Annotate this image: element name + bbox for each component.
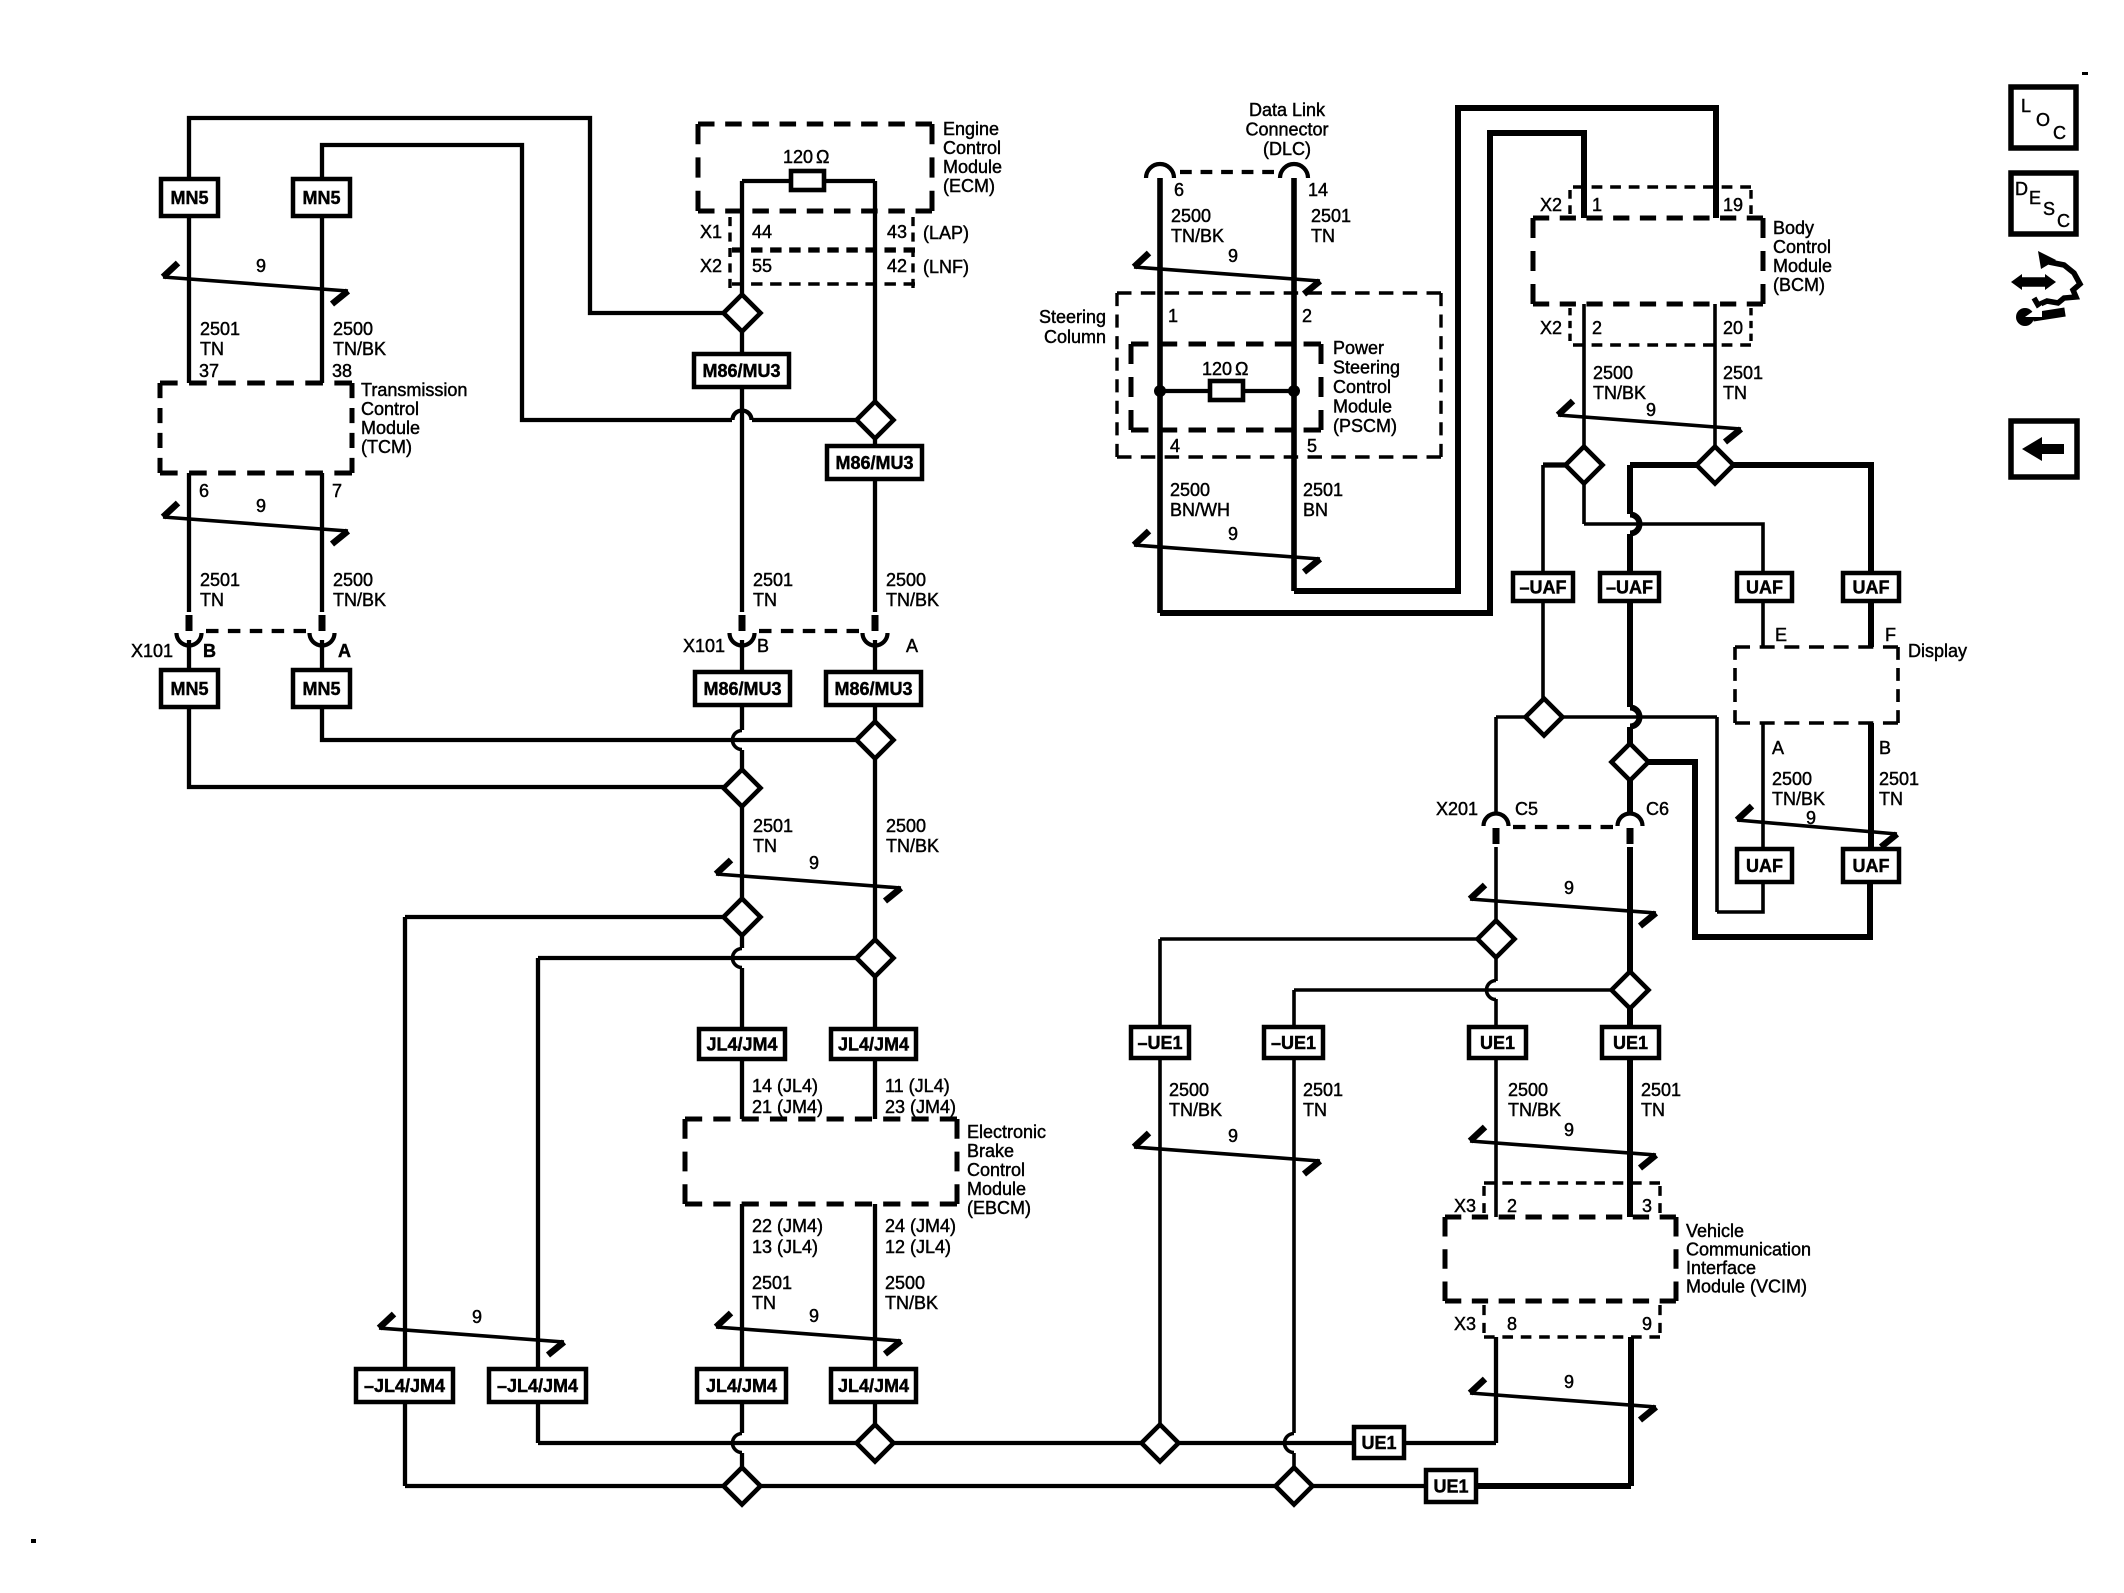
- wire splice D branch left to -UE1 2501 riser: [1294, 988, 1612, 992]
- svg-text:TN: TN: [1311, 226, 1335, 246]
- diamond splice x743 y788: [724, 770, 761, 807]
- wire BCM splice1 branch left to -UAF: [1543, 462, 1566, 467]
- svg-text:A: A: [338, 641, 351, 661]
- wire splice C branch left to -UE1 riser: [1160, 937, 1478, 941]
- svg-text:Body: Body: [1773, 218, 1814, 238]
- legend icon double-arrow with hook and wrench: [2020, 277, 2047, 287]
- wire bottom rail B: [405, 1484, 1426, 1488]
- svg-text:24 (JM4): 24 (JM4): [885, 1216, 956, 1236]
- svg-text:42: 42: [887, 256, 907, 276]
- svg-text:2501: 2501: [753, 816, 793, 836]
- connector code box UE1 on rail A: [1354, 1427, 1404, 1458]
- svg-text:(LNF): (LNF): [923, 257, 969, 277]
- svg-text:9: 9: [256, 256, 266, 276]
- svg-text:9: 9: [1228, 1126, 1238, 1146]
- connector code box -JL4/JM4 left: [356, 1369, 453, 1402]
- svg-text:120: 120: [783, 147, 813, 167]
- svg-text:6: 6: [199, 481, 209, 501]
- stray mark top right: [2082, 72, 2088, 75]
- wire Display pin B to UAF lower: [1868, 723, 1874, 849]
- connector code box M86/MU3 upper: [694, 354, 789, 387]
- wire -UAF2 down to splice B with hop: [1627, 601, 1633, 707]
- svg-text:2501: 2501: [1641, 1080, 1681, 1100]
- svg-text:2501: 2501: [200, 319, 240, 339]
- svg-text:14 (JL4): 14 (JL4): [752, 1076, 818, 1096]
- connector code box MN5 lower-right: [293, 670, 350, 707]
- svg-text:JL4/JM4: JL4/JM4: [838, 1035, 909, 1055]
- svg-text:O: O: [2036, 110, 2050, 130]
- svg-text:TN: TN: [1879, 789, 1903, 809]
- svg-text:X101: X101: [131, 641, 173, 661]
- twisted pair marker UE1/VCIM upper: [1470, 1141, 1656, 1155]
- resistor 120 ohm inside PSCM: [1210, 381, 1243, 400]
- svg-text:X3: X3: [1454, 1314, 1476, 1334]
- svg-text:MN5: MN5: [302, 188, 340, 208]
- legend icon back-arrow box: [2011, 421, 2077, 477]
- connector X101 left pin A: [310, 633, 335, 646]
- svg-text:2501: 2501: [200, 570, 240, 590]
- twisted pair marker -JL4/JM4 pair: [379, 1328, 564, 1342]
- svg-text:TN/BK: TN/BK: [886, 590, 939, 610]
- svg-text:120: 120: [1202, 359, 1232, 379]
- svg-text:MN5: MN5: [170, 188, 208, 208]
- svg-text:11 (JL4): 11 (JL4): [885, 1076, 950, 1096]
- svg-text:2: 2: [1302, 306, 1312, 326]
- svg-text:Module: Module: [361, 418, 420, 438]
- svg-text:A: A: [906, 636, 918, 656]
- diamond splice C (x1497 y939): [1478, 921, 1515, 958]
- svg-text:F: F: [1885, 625, 1896, 645]
- diamond splice BCM 2500: [1566, 447, 1603, 484]
- wire 2500 TN/BK from TCM pin 38 to splice above ECM pin 43: [322, 145, 732, 420]
- svg-text:3: 3: [1642, 1196, 1652, 1216]
- svg-text:Ω: Ω: [816, 147, 829, 167]
- wire splice B down to X201 C6: [1627, 780, 1633, 812]
- svg-text:(BCM): (BCM): [1773, 275, 1825, 295]
- svg-text:4: 4: [1170, 436, 1180, 456]
- wire bottom rail A: [538, 1441, 1354, 1445]
- svg-text:1: 1: [1168, 306, 1178, 326]
- connector code box UAF upper-right: [1843, 573, 1899, 601]
- svg-text:Module: Module: [967, 1179, 1026, 1199]
- wire -UAF1 to splice A: [1541, 601, 1545, 699]
- connector code box MN5 top-right: [293, 179, 350, 216]
- wire 2501 TN from TCM pin 37 to splice above ECM pin 44: [189, 118, 723, 313]
- svg-text:2: 2: [1592, 318, 1602, 338]
- svg-text:TN: TN: [753, 836, 777, 856]
- wire TCM pin 7 to X101 pin A: [320, 473, 324, 612]
- svg-text:UE1: UE1: [1480, 1033, 1515, 1053]
- wire UE1 boxes down to VCIM X3 pins 2-3: [1494, 1058, 1498, 1217]
- diamond splice above M86/MU3 right (2500): [857, 402, 894, 439]
- connector code box UAF lower-right: [1843, 849, 1899, 882]
- diamond splice D (x1630 y990): [1612, 972, 1649, 1009]
- svg-text:5: 5: [1307, 436, 1317, 456]
- wire TCM pin 6 to X101 pin B: [187, 473, 191, 612]
- connector code box UE1 mid-right: [1602, 1027, 1659, 1058]
- svg-text:44: 44: [752, 222, 772, 242]
- svg-text:UAF: UAF: [1746, 856, 1783, 876]
- svg-text:(EBCM): (EBCM): [967, 1198, 1031, 1218]
- svg-text:Control: Control: [361, 399, 419, 419]
- wire X101 mid B down bus: [740, 640, 744, 672]
- twisted pair marker BCM: [1558, 415, 1741, 429]
- connector code box -UAF left: [1513, 573, 1573, 601]
- svg-text:Engine: Engine: [943, 119, 999, 139]
- svg-text:(TCM): (TCM): [361, 437, 412, 457]
- connector X101 mid pin A: [863, 633, 888, 646]
- svg-text:Module: Module: [1333, 397, 1392, 417]
- svg-text:TN/BK: TN/BK: [1772, 789, 1825, 809]
- svg-text:JL4/JM4: JL4/JM4: [838, 1376, 909, 1396]
- svg-text:7: 7: [332, 481, 342, 501]
- wire BCM splice1 down and right to UAF (Display E): [1582, 483, 1586, 524]
- svg-text:UE1: UE1: [1613, 1033, 1648, 1053]
- svg-text:37: 37: [199, 361, 219, 381]
- svg-text:–JL4/JM4: –JL4/JM4: [364, 1376, 445, 1396]
- svg-text:TN: TN: [200, 339, 224, 359]
- connector X101 left pin B: [177, 633, 202, 645]
- wire splice to M86/MU3 right: [873, 438, 877, 446]
- svg-text:M86/MU3: M86/MU3: [702, 361, 780, 381]
- junction dot PSCM resistor left: [1154, 385, 1166, 397]
- diamond splice x877 y740: [857, 722, 894, 759]
- wire MN5 to splice junction lower left 2501: [189, 707, 724, 787]
- svg-text:M86/MU3: M86/MU3: [834, 679, 912, 699]
- svg-text:TN/BK: TN/BK: [885, 1293, 938, 1313]
- svg-text:(PSCM): (PSCM): [1333, 416, 1397, 436]
- svg-text:Steering: Steering: [1333, 358, 1400, 378]
- wire MN5 to splice junction lower 2500: [322, 707, 858, 740]
- ECM X1/X2 connector rows: [740, 211, 744, 294]
- svg-text:D: D: [2015, 179, 2028, 199]
- svg-text:2501: 2501: [1879, 769, 1919, 789]
- svg-text:TN/BK: TN/BK: [886, 836, 939, 856]
- svg-text:Vehicle: Vehicle: [1686, 1221, 1744, 1241]
- svg-text:2500: 2500: [333, 319, 373, 339]
- VCIM X3 connector row top: [1484, 1181, 1660, 1184]
- twisted pair marker TCM lower: [163, 517, 348, 531]
- svg-text:M86/MU3: M86/MU3: [835, 453, 913, 473]
- svg-text:55: 55: [752, 256, 772, 276]
- connector code box -UE1 right: [1264, 1027, 1323, 1058]
- svg-text:20: 20: [1723, 318, 1743, 338]
- connector code box UE1 mid-left: [1469, 1027, 1526, 1058]
- svg-text:9: 9: [472, 1307, 482, 1327]
- svg-text:9: 9: [1564, 878, 1574, 898]
- wire branch to -JL4/JM4 right: [538, 956, 857, 960]
- svg-text:2: 2: [1507, 1196, 1517, 1216]
- wire X201 C5 down to splice C: [1494, 847, 1498, 921]
- wire splice A left to X201 C5: [1496, 715, 1526, 719]
- svg-text:TN: TN: [1303, 1100, 1327, 1120]
- wire M86/MU3 right to X101 A mid: [873, 479, 877, 612]
- twisted pair marker -UE1 pair: [1134, 1147, 1320, 1161]
- svg-text:9: 9: [1564, 1372, 1574, 1392]
- svg-text:Communication: Communication: [1686, 1240, 1811, 1260]
- diamond splice x875 y958: [857, 940, 894, 977]
- module box Display dashed: [1735, 645, 1898, 649]
- connector code box JL4/JM4 upper-left: [699, 1029, 785, 1059]
- wire M86/MU3 mid-right down bus (x875): [873, 705, 877, 722]
- module box VCIM dashed: [1445, 1215, 1676, 1220]
- svg-text:JL4/JM4: JL4/JM4: [706, 1035, 777, 1055]
- wire X201 C6 down to splice D: [1627, 847, 1633, 972]
- svg-text:9: 9: [1228, 246, 1238, 266]
- connector code box MN5 lower-left: [161, 670, 218, 707]
- svg-text:(LAP): (LAP): [923, 223, 969, 243]
- wire X101 B to MN5: [187, 640, 191, 670]
- module box TCM dashed: [160, 381, 352, 386]
- svg-text:Transmission: Transmission: [361, 380, 467, 400]
- svg-text:Display: Display: [1908, 641, 1967, 661]
- svg-text:UAF: UAF: [1746, 578, 1783, 598]
- svg-text:2500: 2500: [1170, 480, 1210, 500]
- svg-text:TN/BK: TN/BK: [1171, 226, 1224, 246]
- svg-text:8: 8: [1507, 1314, 1517, 1334]
- wire DLC pin 14 down through PSCM pin2/pin5 2501: [1291, 178, 1297, 591]
- wire ECM pin 43 vertical: [873, 181, 877, 401]
- svg-text:Data Link: Data Link: [1249, 100, 1326, 120]
- diamond splice line A x1160: [1142, 1425, 1179, 1462]
- wire JL4/JM4 lower right to line A: [873, 1402, 877, 1424]
- svg-text:C: C: [2053, 123, 2066, 143]
- connector code box M86/MU3 upper-right: [827, 446, 922, 479]
- svg-text:E: E: [1775, 625, 1787, 645]
- svg-text:Module (VCIM): Module (VCIM): [1686, 1277, 1807, 1297]
- svg-text:C: C: [2057, 211, 2070, 231]
- svg-text:M86/MU3: M86/MU3: [703, 679, 781, 699]
- connector X201 C5: [1484, 814, 1509, 827]
- svg-text:BN/WH: BN/WH: [1170, 500, 1230, 520]
- svg-text:S: S: [2043, 199, 2055, 219]
- svg-text:UAF: UAF: [1853, 578, 1890, 598]
- svg-text:Column: Column: [1044, 327, 1106, 347]
- twisted pair marker VCIM lower: [1470, 1393, 1656, 1407]
- svg-text:2500: 2500: [333, 570, 373, 590]
- wire BCM splice2 branch right to UAF (Display F): [1733, 465, 1871, 573]
- connector code box UAF upper-left: [1737, 573, 1792, 601]
- svg-text:2501: 2501: [752, 1273, 792, 1293]
- svg-text:43: 43: [887, 222, 907, 242]
- wire JL4/JM4 lower to CAN junction A: [740, 1402, 744, 1433]
- svg-text:(ECM): (ECM): [943, 176, 995, 196]
- svg-text:–UAF: –UAF: [1606, 578, 1653, 598]
- svg-text:TN/BK: TN/BK: [333, 339, 386, 359]
- diamond splice line B x744: [724, 1468, 761, 1505]
- svg-text:Control: Control: [1773, 237, 1831, 257]
- diamond splice B (x1629 y762): [1612, 744, 1649, 781]
- svg-text:JL4/JM4: JL4/JM4: [706, 1376, 777, 1396]
- svg-text:MN5: MN5: [170, 679, 208, 699]
- svg-text:Control: Control: [943, 138, 1001, 158]
- wire ECM internal resistor leads: [742, 179, 791, 183]
- connector DLC pin 6 cup: [1146, 164, 1174, 178]
- wire loop PSCM pin4 to BCM pin1: [1160, 133, 1584, 613]
- wire TCM pin 37 vertical 2501 TN: [187, 212, 191, 383]
- svg-text:14: 14: [1308, 180, 1328, 200]
- wire -UE1 boxes down to rails: [1158, 1058, 1162, 1425]
- svg-text:TN: TN: [200, 590, 224, 610]
- svg-text:UAF: UAF: [1853, 856, 1890, 876]
- diamond splice BCM 2501: [1697, 447, 1734, 484]
- svg-text:9: 9: [809, 853, 819, 873]
- junction dot PSCM resistor right: [1288, 385, 1300, 397]
- svg-text:9: 9: [1806, 808, 1816, 828]
- svg-text:2500: 2500: [1508, 1080, 1548, 1100]
- svg-text:Ω: Ω: [1235, 359, 1248, 379]
- wire splice to M86/MU3 bus left: [740, 332, 744, 354]
- svg-text:–UE1: –UE1: [1271, 1033, 1316, 1053]
- module box ECM dashed: [698, 122, 932, 127]
- twisted pair marker Display: [1737, 820, 1897, 834]
- svg-text:2501: 2501: [1723, 363, 1763, 383]
- svg-text:Control: Control: [967, 1160, 1025, 1180]
- svg-text:9: 9: [809, 1306, 819, 1326]
- module box Steering Column outer dashed: [1117, 291, 1441, 294]
- svg-text:2501: 2501: [1303, 480, 1343, 500]
- wire M86/MU3 to X101 B mid vertical with hops: [740, 387, 744, 612]
- wire -JL4/JM4 boxes down to bottom rails: [403, 1402, 407, 1486]
- svg-text:2501: 2501: [1303, 1080, 1343, 1100]
- svg-text:UE1: UE1: [1433, 1477, 1468, 1497]
- svg-text:2500: 2500: [1169, 1080, 1209, 1100]
- connector code box -JL4/JM4 right: [489, 1369, 586, 1402]
- svg-text:9: 9: [1228, 524, 1238, 544]
- wire loop PSCM pin5 to BCM pin19: [1294, 108, 1716, 591]
- stray mark bottom left: [31, 1539, 36, 1543]
- svg-text:C5: C5: [1515, 799, 1538, 819]
- BCM X2 connector row bottom: [1573, 343, 1751, 346]
- svg-text:B: B: [203, 641, 216, 661]
- svg-text:1: 1: [1592, 195, 1602, 215]
- wire Display pin A to UAF lower: [1761, 723, 1765, 849]
- svg-text:9: 9: [1646, 400, 1656, 420]
- twisted pair marker PSCM lower: [1134, 545, 1320, 559]
- svg-text:2500: 2500: [1593, 363, 1633, 383]
- svg-text:19: 19: [1723, 195, 1743, 215]
- connector code box JL4/JM4 lower-left: [697, 1369, 786, 1402]
- twisted pair marker TCM upper: [163, 277, 348, 291]
- connector code box -UE1 left: [1131, 1027, 1189, 1058]
- svg-text:TN/BK: TN/BK: [1593, 383, 1646, 403]
- wire JL4/JM4 to EBCM pins top: [740, 1059, 744, 1119]
- connector code box MN5 top-left: [161, 179, 218, 216]
- wire BCM pin20 down 2501 TN: [1713, 304, 1717, 447]
- wire X101 A to MN5: [320, 640, 324, 670]
- svg-text:MN5: MN5: [302, 679, 340, 699]
- wire TCM pin 38 vertical 2500 TN/BK: [320, 212, 324, 383]
- svg-text:22 (JM4): 22 (JM4): [752, 1216, 823, 1236]
- wire splice C down to UE1: [1494, 957, 1498, 981]
- svg-text:UE1: UE1: [1361, 1433, 1396, 1453]
- svg-text:X1: X1: [700, 222, 722, 242]
- svg-text:A: A: [1772, 738, 1784, 758]
- svg-text:2500: 2500: [1772, 769, 1812, 789]
- connector X201 C6: [1618, 814, 1643, 827]
- wire PSCM 120ohm resistor leads: [1160, 389, 1210, 393]
- twisted pair marker X201 lower: [1470, 899, 1656, 913]
- svg-text:–UAF: –UAF: [1519, 578, 1566, 598]
- wire ECM pin 44 vertical: [740, 181, 744, 294]
- svg-text:E: E: [2029, 188, 2041, 208]
- svg-text:BN: BN: [1303, 500, 1328, 520]
- svg-text:2501: 2501: [753, 570, 793, 590]
- svg-text:TN: TN: [752, 1293, 776, 1313]
- connector code box UAF lower-left: [1737, 849, 1792, 882]
- wire DLC pin 6 down through PSCM pin1/pin4 2500: [1157, 178, 1163, 613]
- svg-text:9: 9: [256, 496, 266, 516]
- wire splice B right to Display-B return riser (thick): [1647, 762, 1870, 937]
- module box PSCM inner dashed: [1131, 342, 1321, 347]
- connector code box M86/MU3 mid-left: [695, 672, 790, 705]
- svg-text:Steering: Steering: [1039, 307, 1106, 327]
- svg-text:9: 9: [1564, 1120, 1574, 1140]
- svg-text:2500: 2500: [1171, 206, 1211, 226]
- svg-text:B: B: [1879, 738, 1891, 758]
- svg-text:X201: X201: [1436, 799, 1478, 819]
- twisted pair marker EBCM lower: [716, 1327, 901, 1341]
- svg-text:9: 9: [1642, 1314, 1652, 1334]
- svg-text:23 (JM4): 23 (JM4): [885, 1097, 956, 1117]
- svg-text:X2: X2: [1540, 195, 1562, 215]
- diamond splice line B x1293: [1276, 1468, 1313, 1505]
- svg-text:B: B: [757, 636, 769, 656]
- BCM X2 connector row top: [1573, 185, 1751, 188]
- svg-text:TN: TN: [1723, 383, 1747, 403]
- svg-text:2500: 2500: [886, 570, 926, 590]
- diamond splice x742 y917: [724, 899, 761, 936]
- twisted pair marker DLC: [1134, 267, 1320, 281]
- svg-text:6: 6: [1174, 180, 1184, 200]
- svg-text:Electronic: Electronic: [967, 1122, 1046, 1142]
- twisted pair marker mid pair below M86/MU3: [716, 874, 901, 888]
- svg-text:Brake: Brake: [967, 1141, 1014, 1161]
- svg-text:C6: C6: [1646, 799, 1669, 819]
- connector code box -UAF right: [1600, 573, 1659, 601]
- connector code box JL4/JM4 upper-right: [831, 1029, 916, 1059]
- wire hop - 2500 wire over ECM pin 44 wire: [733, 411, 752, 421]
- diamond splice line A x877: [857, 1425, 894, 1462]
- svg-text:L: L: [2021, 96, 2031, 116]
- svg-text:Module: Module: [1773, 256, 1832, 276]
- svg-text:2501: 2501: [1311, 206, 1351, 226]
- svg-text:Control: Control: [1333, 377, 1391, 397]
- svg-text:–JL4/JM4: –JL4/JM4: [497, 1376, 578, 1396]
- svg-text:2500: 2500: [885, 1273, 925, 1293]
- svg-text:Module: Module: [943, 157, 1002, 177]
- svg-text:2500: 2500: [886, 816, 926, 836]
- svg-text:TN/BK: TN/BK: [1169, 1100, 1222, 1120]
- svg-text:12 (JL4): 12 (JL4): [885, 1237, 951, 1257]
- diamond splice above M86/MU3 (2501): [724, 295, 761, 332]
- svg-text:X2: X2: [1540, 318, 1562, 338]
- svg-text:Power: Power: [1333, 338, 1384, 358]
- module box EBCM dashed: [685, 1117, 957, 1122]
- wire splice D down to UE1 2501: [1627, 1008, 1633, 1027]
- svg-text:–UE1: –UE1: [1137, 1033, 1182, 1053]
- connector code box UE1 on rail B: [1426, 1470, 1476, 1502]
- connector code box M86/MU3 mid-right: [826, 672, 921, 705]
- legend icon LOC box: [2011, 87, 2076, 148]
- wire BCM pin2 down 2500 TN/BK: [1582, 304, 1586, 447]
- diamond splice A (x1544 y717): [1526, 699, 1563, 736]
- svg-text:X3: X3: [1454, 1196, 1476, 1216]
- resistor 120 ohm inside ECM: [791, 171, 824, 190]
- svg-text:TN/BK: TN/BK: [333, 590, 386, 610]
- svg-text:38: 38: [332, 361, 352, 381]
- svg-text:21 (JM4): 21 (JM4): [752, 1097, 823, 1117]
